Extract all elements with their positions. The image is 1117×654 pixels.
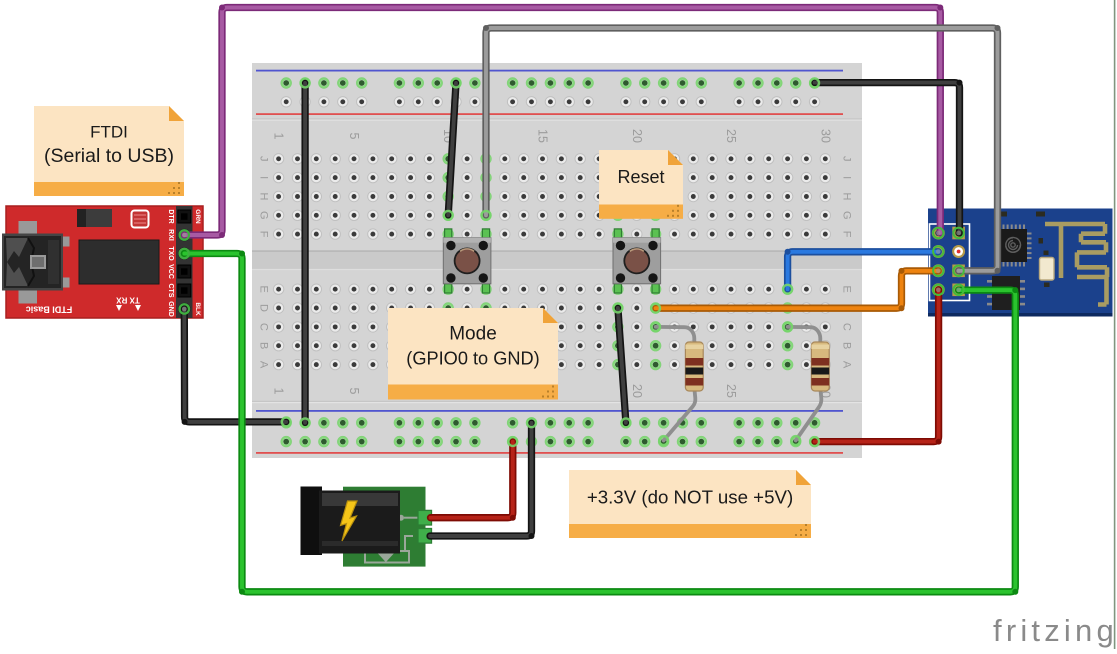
svg-text:E: E xyxy=(258,286,270,293)
svg-text:20: 20 xyxy=(630,129,644,143)
wire: green FTDI-TXO to ESP-RX xyxy=(184,251,1018,595)
wire: red ESP-VCC to +3.3V rail xyxy=(815,290,942,445)
barrel jack body xyxy=(301,487,401,556)
FTDI header strip xyxy=(176,206,193,318)
wire: orange D21 to ESP-RST xyxy=(656,268,939,311)
svg-text:GRN: GRN xyxy=(194,209,201,224)
svg-text:A: A xyxy=(841,361,853,369)
FTDI crystal xyxy=(132,211,149,228)
svg-text:FTDI: FTDI xyxy=(90,122,128,141)
wire: black jumper top-rail to G10 xyxy=(448,83,456,215)
svg-text:(GPIO0 to GND): (GPIO0 to GND) xyxy=(406,349,539,369)
svg-text:J: J xyxy=(258,156,270,162)
resistor R2 (to +3.3V rail) xyxy=(788,327,830,441)
ESP flash chip xyxy=(987,276,1025,310)
svg-text:I: I xyxy=(841,176,853,179)
note: +3.3V warning xyxy=(569,470,811,538)
ESP antenna trace xyxy=(1045,222,1107,305)
breadboard main grid holes xyxy=(273,154,830,370)
connection highlight rings over wire ends xyxy=(180,79,964,446)
bottom power rail holes (both rails connected) xyxy=(281,418,820,447)
wire: black jumper D19 to bottom rail xyxy=(618,308,626,423)
svg-text:1: 1 xyxy=(272,388,286,395)
note: FTDI xyxy=(34,106,184,196)
svg-text:H: H xyxy=(258,193,270,201)
note: Mode xyxy=(388,308,558,400)
svg-text:B: B xyxy=(841,342,853,349)
svg-text:5: 5 xyxy=(347,133,361,140)
svg-text:25: 25 xyxy=(724,129,738,143)
ESP passives xyxy=(999,212,1050,288)
canvas right border line xyxy=(1114,0,1116,649)
svg-text:Mode: Mode xyxy=(449,324,497,345)
svg-text:D: D xyxy=(258,304,270,312)
breadboard row letter labels xyxy=(258,156,853,369)
wire: black top-rail to ESP-GND xyxy=(815,80,963,233)
FTDI Basic board xyxy=(6,206,203,318)
svg-text:20: 20 xyxy=(630,384,644,398)
FTDI silkscreen text xyxy=(26,296,141,315)
note: Reset xyxy=(599,150,683,219)
svg-text:25: 25 xyxy=(724,384,738,398)
ESP pin header pins xyxy=(932,227,965,297)
wire: black FTDI-GND to bottom rail xyxy=(182,309,287,425)
svg-text:E: E xyxy=(841,286,853,293)
wire: black jack to GND rail xyxy=(430,423,535,539)
ESP8266 chip xyxy=(996,225,1032,267)
jack terminal pads xyxy=(418,510,432,543)
svg-text:BLK: BLK xyxy=(194,302,201,316)
ESP crystal xyxy=(1040,258,1055,281)
svg-text:CTS: CTS xyxy=(167,284,174,298)
pushbutton S1 (Mode / GPIO0) xyxy=(443,229,491,293)
svg-text:TXO: TXO xyxy=(167,246,174,261)
FTDI small chip xyxy=(77,209,112,227)
svg-text:C: C xyxy=(258,323,270,331)
svg-text:C: C xyxy=(841,323,853,331)
FTDI header pins and labels xyxy=(167,209,201,317)
FTDI IC xyxy=(79,240,159,284)
svg-text:TX RX: TX RX xyxy=(116,296,140,305)
svg-text:G: G xyxy=(258,211,270,220)
top power rail holes (blue rail row connected) xyxy=(281,78,820,107)
svg-text:+3.3V (do NOT use +5V): +3.3V (do NOT use +5V) xyxy=(587,487,793,508)
ESP8266 ESP-01 module U1 xyxy=(928,209,1113,317)
wire: black jumper rails left xyxy=(301,83,308,423)
svg-text:(Serial to USB): (Serial to USB) xyxy=(44,145,174,167)
svg-text:J: J xyxy=(841,156,853,162)
pushbutton S2 (Reset) xyxy=(613,229,661,293)
wire: gray breadboard-G12 to ESP-GPIO0 xyxy=(483,25,1001,274)
svg-text:DTR: DTR xyxy=(167,209,174,223)
svg-text:H: H xyxy=(841,193,853,201)
power supply barrel jack PCB xyxy=(343,487,426,567)
svg-text:G: G xyxy=(841,211,853,220)
svg-text:RXI: RXI xyxy=(167,229,174,241)
svg-text:15: 15 xyxy=(536,129,550,143)
svg-text:fritzing: fritzing xyxy=(993,613,1117,648)
svg-text:30: 30 xyxy=(818,129,832,143)
ESP pin header white outline xyxy=(930,224,970,301)
resistor R1 (to +3.3V rail) xyxy=(656,327,704,441)
svg-text:F: F xyxy=(841,231,853,238)
wire: red jack to +3.3V rail xyxy=(431,442,516,521)
svg-text:GND: GND xyxy=(167,301,174,317)
svg-text:1: 1 xyxy=(272,133,286,140)
svg-text:F: F xyxy=(258,231,270,238)
svg-text:I: I xyxy=(258,176,270,179)
svg-text:B: B xyxy=(258,342,270,349)
svg-text:FTDI Basic: FTDI Basic xyxy=(26,305,73,315)
svg-text:Reset: Reset xyxy=(617,167,664,187)
svg-text:A: A xyxy=(258,361,270,369)
wire: purple FTDI-RXI to ESP-TX xyxy=(184,5,943,239)
breadboard column number labels xyxy=(272,129,833,398)
svg-text:VCC: VCC xyxy=(167,264,174,279)
USB mini connector xyxy=(2,221,70,304)
breadboard xyxy=(252,63,862,458)
svg-text:5: 5 xyxy=(347,388,361,395)
wire: blue ESP-CHPD to E28 xyxy=(785,249,939,289)
